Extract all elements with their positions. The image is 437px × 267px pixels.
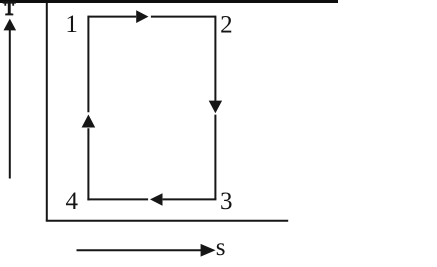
cycle right edge segment 2-3 lower part [214, 115, 216, 200]
label T [3, 1, 16, 15]
s arrowhead right [201, 244, 216, 257]
s arrow shaft [77, 249, 202, 251]
svg-text:3: 3 [220, 188, 233, 215]
cycle top edge segment 1-2 left part [88, 16, 136, 18]
cycle left edge segment 4-1 upper part [87, 16, 89, 113]
T axis arrowhead [4, 19, 17, 31]
svg-text:4: 4 [66, 188, 79, 215]
top horizontal rule [0, 0, 338, 3]
cycle bottom edge arrowhead left [150, 193, 163, 206]
T axis vertical line [46, 3, 48, 221]
cycle left edge arrowhead up [82, 115, 96, 128]
cycle bottom edge segment 3-4 left part [87, 198, 148, 200]
cycle top edge arrowhead right [136, 10, 148, 23]
cycle left edge segment 4-1 lower part [87, 128, 89, 200]
svg-text:s: s [216, 234, 226, 261]
cycle top edge segment 1-2 right part [151, 16, 216, 18]
svg-text:1: 1 [65, 11, 78, 38]
svg-text:2: 2 [220, 12, 233, 39]
s axis horizontal line [46, 220, 288, 222]
cycle right edge segment 2-3 upper part [214, 16, 216, 101]
cycle right edge arrowhead down [209, 101, 222, 114]
cycle bottom edge segment 3-4 right part [163, 198, 217, 200]
T axis arrow shaft [9, 29, 11, 179]
